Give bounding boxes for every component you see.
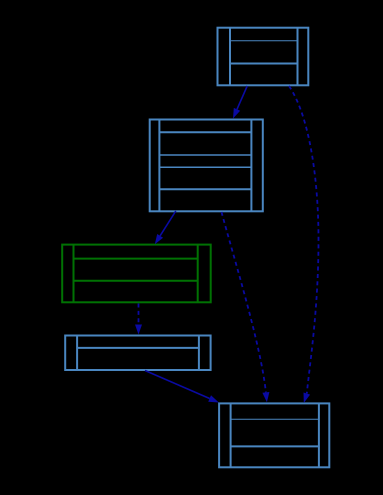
edge C (N2 -> N3, solid)	[155, 211, 176, 244]
edge F (N4 -> N5, solid)	[145, 371, 219, 403]
node N3 (green record box)	[62, 245, 211, 303]
edge E (N3 -> N4, dashed vertical)	[135, 304, 142, 335]
node N4 (small record box)	[65, 336, 210, 371]
node N5 (bottom record box)	[219, 403, 329, 467]
node N2 (second record box)	[150, 120, 263, 212]
edge A (N1 -> N2, solid)	[233, 86, 247, 119]
node N1 (top record box)	[218, 28, 309, 86]
edge B (N1 -> N5, dashed curve along right side)	[289, 86, 319, 403]
edge D (N2 -> N5, dashed diagonal)	[222, 212, 270, 402]
